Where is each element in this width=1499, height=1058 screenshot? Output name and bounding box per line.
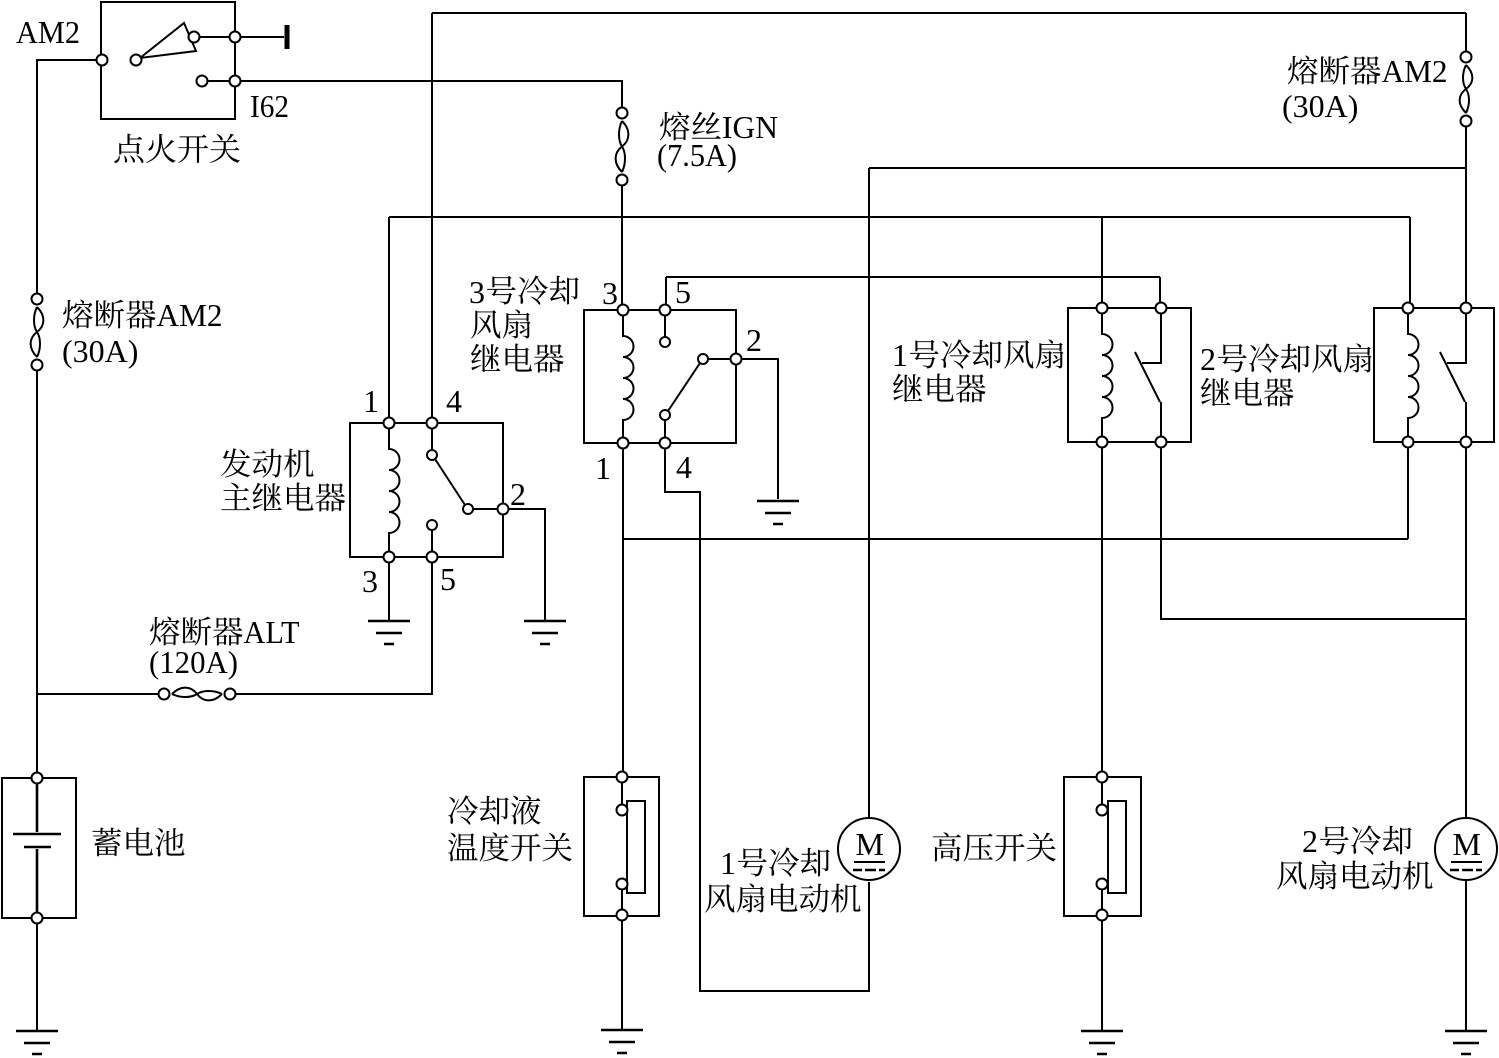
wire riser to engine relay pin 4	[431, 13, 433, 418]
label 熔丝IGN (7.5A)	[657, 109, 778, 173]
svg-text:(7.5A): (7.5A)	[657, 137, 737, 173]
battery 蓄电池 box	[2, 778, 76, 918]
label 2号冷却风扇电动机	[1277, 823, 1432, 890]
bus wire relay 3 pin 1 to relay 2 coil bottom	[623, 447, 1408, 539]
ground below pressure switch	[1081, 1031, 1123, 1054]
wire relay 3 pin 4 to motor 1 bottom	[665, 449, 869, 991]
svg-text:2: 2	[510, 476, 526, 512]
label 熔断器AM2 (30A) right	[1282, 53, 1448, 124]
cooling fan relay no.3 3号冷却风扇继电器 box	[584, 310, 736, 443]
relay 3 terminals	[618, 305, 742, 449]
cooling fan motor no.2 2号冷却风扇电动机	[1435, 818, 1497, 880]
fuse AM2 right (30A)	[1460, 13, 1473, 303]
label 熔断器ALT (120A)	[149, 614, 300, 680]
engine main relay switch	[432, 428, 498, 552]
label 1号冷却风扇电动机	[705, 845, 860, 913]
svg-text:(120A): (120A)	[149, 644, 238, 680]
battery terminals	[32, 773, 43, 924]
label 冷却液温度开关	[448, 795, 572, 861]
fuse IGN (7.5A)	[616, 108, 629, 186]
wire temperature switch to ground	[621, 921, 623, 1029]
svg-text:1: 1	[595, 450, 611, 486]
wire pressure switch to ground	[1101, 921, 1103, 1030]
wire drop to relay 1 switch pin	[1159, 277, 1161, 303]
svg-text:3: 3	[602, 275, 618, 311]
relay 2 switch	[1440, 313, 1466, 437]
wire battery to ground	[36, 924, 38, 1030]
relay 1 switch	[1135, 313, 1161, 437]
label 3号冷却风扇继电器	[469, 274, 579, 373]
pressure switch sensor bar	[1108, 801, 1126, 893]
wire drop to relay 3 pin 5	[665, 277, 667, 305]
svg-text:(30A): (30A)	[62, 333, 138, 369]
relay 2 terminals	[1403, 303, 1472, 448]
svg-text:AM2: AM2	[1382, 53, 1448, 89]
ground below temperature switch	[601, 1030, 643, 1053]
ignition switch lever	[140, 23, 196, 58]
wire I62 terminal to fuse IGN	[241, 81, 622, 107]
relay 3 coil	[623, 315, 634, 438]
label 高压开关	[933, 832, 1056, 861]
label 发动机主继电器	[221, 448, 345, 511]
svg-text:I62: I62	[250, 88, 289, 124]
wire fuse AM2 to battery	[36, 370, 38, 773]
svg-text:AM2: AM2	[16, 14, 80, 50]
ignition switch box 点火开关	[101, 2, 235, 119]
wire drop to relay 2 coil pin	[1409, 217, 1411, 303]
relay 1 terminals	[1097, 303, 1167, 448]
bus wire engine relay pin 1 to relay 2 coil	[389, 216, 1410, 218]
wire riser bus to motor 1	[868, 168, 870, 817]
wire relay 1 coil bottom down to pressure switch	[1101, 447, 1103, 772]
terminal bar	[285, 25, 290, 49]
ground below motor 2	[1445, 1031, 1487, 1054]
svg-text:(30A): (30A)	[1282, 88, 1358, 124]
wire engine relay pin 2 to ground	[508, 509, 545, 620]
wire from ignition switch AM2 terminal down the left side	[37, 60, 97, 293]
relay 1 coil	[1102, 313, 1113, 437]
svg-text:1: 1	[720, 845, 736, 881]
cooling fan relay no.2 2号冷却风扇继电器 box	[1374, 308, 1494, 442]
ignition switch terminals	[97, 32, 241, 87]
wire ignition lower contact pair	[207, 80, 230, 82]
temperature switch contacts	[621, 782, 623, 910]
ground below relay 3 pin 2	[757, 501, 799, 524]
wire relay 3 pin 1 down to temperature switch	[622, 449, 624, 772]
engine relay pin labels 1 4 3 5 2	[362, 383, 526, 599]
wire fuse ALT to battery wire	[37, 693, 159, 695]
battery plates	[13, 783, 61, 913]
svg-text:4: 4	[446, 383, 462, 419]
bus wire motor 1 to fuse AM2 right	[869, 167, 1466, 169]
engine main relay terminals	[384, 418, 509, 563]
svg-text:5: 5	[440, 561, 456, 597]
svg-text:4: 4	[676, 449, 692, 485]
bus wire relay 3 pin 5 to relay 1 switch pin	[666, 276, 1160, 278]
pressure switch contacts	[1101, 782, 1103, 910]
top bus wire from ignition area to fuse AM2 right	[432, 12, 1466, 14]
svg-text:2: 2	[1200, 341, 1216, 377]
svg-text:AM2: AM2	[157, 297, 223, 333]
svg-text:M: M	[856, 826, 884, 862]
label 2号冷却风扇继电器	[1200, 341, 1372, 407]
relay 3 switch	[665, 315, 731, 438]
label 蓄电池	[92, 828, 184, 857]
svg-text:1: 1	[363, 383, 379, 419]
engine main relay 发动机主继电器 box	[350, 423, 503, 557]
coolant temperature switch 冷却液温度开关 box	[584, 777, 659, 916]
wire motor 2 to ground	[1465, 881, 1467, 1030]
relay 2 coil	[1408, 313, 1419, 437]
wire engine relay pin 3 to ground	[388, 562, 390, 620]
svg-text:2: 2	[1302, 823, 1318, 859]
engine main relay coil	[389, 428, 400, 552]
label 点火开关	[114, 134, 239, 163]
fuse ALT (120A)	[159, 688, 236, 701]
svg-text:3: 3	[469, 274, 485, 310]
svg-text:M: M	[1453, 826, 1481, 862]
wire relay 1 switch bottom to motor 2 wire	[1161, 447, 1466, 619]
temperature switch sensor bar	[627, 801, 645, 893]
wire relay 3 pin 2 to ground	[742, 359, 778, 499]
svg-text:2: 2	[746, 322, 762, 358]
wire fuse IGN down to relay 3 pin 3	[621, 185, 623, 305]
svg-text:ALT: ALT	[244, 614, 300, 650]
high pressure switch 高压开关 box	[1064, 777, 1141, 916]
cooling fan motor no.1 1号冷却风扇电动机	[838, 818, 900, 880]
wire riser engine relay pin 1	[388, 217, 390, 418]
svg-text:1: 1	[892, 337, 908, 373]
ground below battery	[16, 1031, 58, 1054]
svg-text:5: 5	[675, 274, 691, 310]
wire drop to relay 1 coil pin	[1101, 217, 1103, 303]
label 1号冷却风扇继电器	[892, 337, 1064, 403]
wire relay 2 switch bottom down to motor 2	[1465, 447, 1467, 818]
wire ignition upper contact to terminal bar	[199, 36, 284, 38]
relay 3 pin labels 3 5 2 1 4	[595, 274, 762, 486]
label 熔断器AM2 (30A) left	[62, 297, 223, 369]
svg-text:3: 3	[362, 563, 378, 599]
wire engine relay pin 5 down to fuse ALT	[236, 562, 432, 694]
cooling fan relay no.1 1号冷却风扇继电器 box	[1068, 308, 1191, 442]
ground below engine relay pin 2	[524, 621, 566, 644]
ground below engine relay pin 3	[368, 621, 410, 644]
fuse AM2 left (30A)	[31, 294, 44, 371]
